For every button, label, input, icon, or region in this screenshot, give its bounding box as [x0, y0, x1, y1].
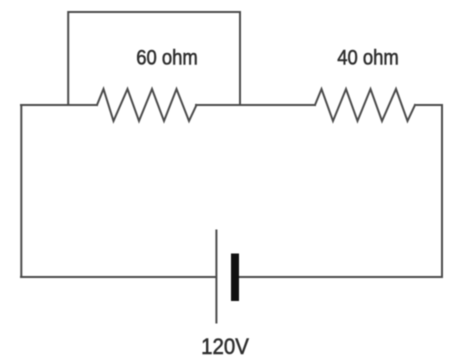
wire right side [441, 105, 443, 277]
wire left side [20, 105, 22, 277]
wire top-right segment [415, 104, 442, 106]
wire bottom-left segment [21, 276, 216, 278]
wire top-left segment [21, 104, 97, 106]
wire bottom-right segment [239, 276, 442, 278]
svg-text:120V: 120V [201, 334, 250, 359]
resistor R1 60 ohm [97, 89, 197, 121]
svg-text:60 ohm: 60 ohm [136, 46, 198, 69]
battery V1 short thick plate [231, 254, 239, 302]
svg-text:40 ohm: 40 ohm [337, 46, 399, 69]
wire bypass loop around R1 (node A to node B) [68, 12, 240, 105]
battery V1 long thin plate [215, 231, 217, 323]
wire top-middle segment [196, 104, 315, 106]
resistor R2 40 ohm [315, 89, 415, 121]
